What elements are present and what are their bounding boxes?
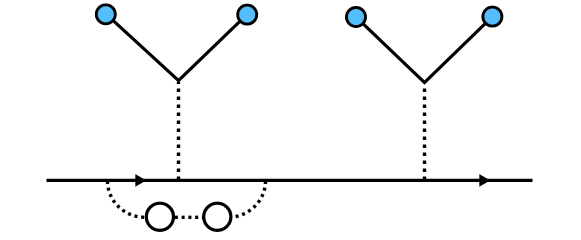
left V blue circle 1 [96, 5, 115, 24]
left V legs [106, 14, 247, 81]
left V dotted vertical line [177, 82, 180, 180]
left V blue circle 2 [238, 5, 257, 24]
right V legs [356, 17, 493, 83]
fermion line (horizontal axis) [47, 179, 533, 182]
open circle left [146, 203, 173, 230]
right V blue circle 2 [483, 7, 502, 26]
arrowhead right [479, 174, 490, 187]
arrowhead left [135, 174, 146, 187]
right V blue circle 1 [347, 8, 366, 27]
right V dotted vertical line [423, 84, 426, 180]
dotted arc below line [108, 181, 266, 217]
open circle right [204, 203, 231, 230]
